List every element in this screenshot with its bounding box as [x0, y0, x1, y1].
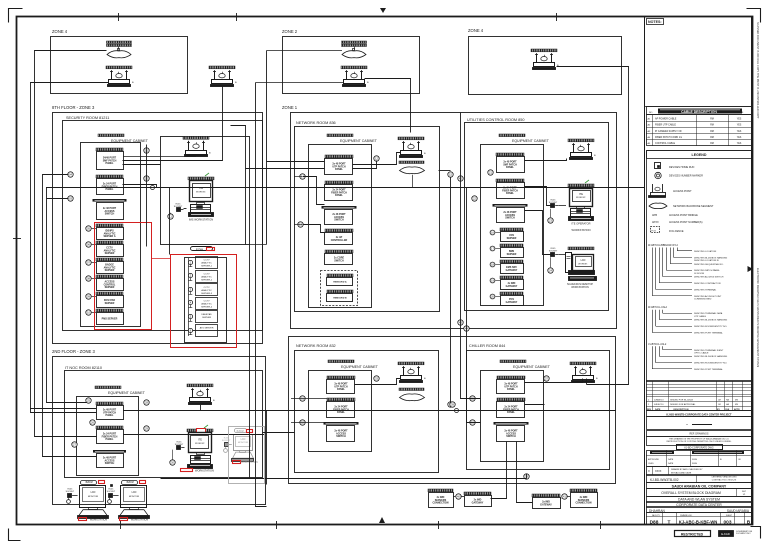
svg-text:XXXX: XXXX [655, 470, 662, 473]
svg-text:NETWORK BACKBONE SEGMENT: NETWORK BACKBONE SEGMENT [673, 205, 714, 208]
svg-text:8TH FLOOR - ZONE 3: 8TH FLOOR - ZONE 3 [52, 105, 95, 110]
svg-text:WORKSTATION: WORKSTATION [195, 469, 214, 473]
svg-text:ITE OPERATOR: ITE OPERATOR [571, 222, 590, 226]
svg-text:IT NOC ROOM 82110: IT NOC ROOM 82110 [65, 366, 102, 370]
svg-text:ISSUED FOR APPROVAL: ISSUED FOR APPROVAL [670, 403, 696, 406]
svg-text:CONNECTION: CONNECTION [432, 502, 448, 505]
svg-text:SERVER-3: SERVER-3 [201, 293, 213, 295]
svg-text:DATE: DATE [668, 462, 674, 465]
svg-text:DOCUMENT ONLY: DOCUMENT ONLY [736, 533, 752, 535]
svg-text:SERVER A: SERVER A [103, 235, 115, 238]
svg-text:DENOTES LOCATION: DENOTES LOCATION [694, 250, 717, 253]
svg-text:DRAWING NO.: DRAWING NO. [680, 514, 693, 517]
svg-text:LEGEND: LEGEND [692, 153, 707, 157]
svg-text:ATS SERVER: ATS SERVER [200, 327, 214, 330]
svg-text:UTILITIES CONTROL ROOM 850: UTILITIES CONTROL ROOM 850 [467, 118, 524, 122]
svg-text:SHEET: SHEET [726, 515, 733, 517]
svg-text:PANEL: PANEL [335, 194, 343, 197]
svg-text:SECURITY ROOM 81211: SECURITY ROOM 81211 [66, 116, 109, 120]
svg-text:CONNECTION: CONNECTION [575, 502, 591, 505]
svg-text:MONITOR: MONITOR [129, 496, 140, 498]
svg-text:SERVER: SERVER [507, 237, 517, 240]
svg-text:PANEL: PANEL [337, 388, 345, 391]
svg-text:PANEL: PANEL [106, 162, 114, 165]
svg-text:WORKST.: WORKST. [578, 263, 588, 265]
svg-text:WORKSTATION: WORKSTATION [131, 519, 149, 522]
svg-text:CHKD: CHKD [648, 463, 654, 465]
svg-text:RM: RM [710, 125, 714, 127]
svg-text:DENOTES TERMINAL IDENT: DENOTES TERMINAL IDENT [694, 349, 724, 352]
svg-text:ANALYTIC: ANALYTIC [201, 275, 212, 278]
svg-text:CONTROLLER: CONTROLLER [331, 239, 348, 242]
svg-text:PANEL: PANEL [106, 188, 114, 191]
svg-text:DENOTES CONTRACTOR: DENOTES CONTRACTOR [694, 282, 721, 285]
svg-text:DATA PAD: DATA PAD [201, 313, 212, 316]
svg-text:PMS SERVER: PMS SERVER [102, 317, 118, 320]
svg-text:YES: YES [737, 118, 742, 120]
svg-text:PANEL: PANEL [507, 411, 515, 414]
svg-text:SIGN: SIGN [692, 459, 697, 461]
svg-text:MONITOR: MONITOR [88, 496, 99, 498]
svg-text:D88: D88 [650, 520, 659, 526]
svg-text:APB: APB [652, 214, 657, 217]
svg-text:ITE: ITE [579, 192, 583, 196]
svg-text:CONTRACT NO. XXXX-XX: CONTRACT NO. XXXX-XX [712, 478, 737, 481]
svg-text:FIBER UTP CABLE: FIBER UTP CABLE [655, 124, 676, 127]
svg-text:B2DIM: B2DIM [237, 431, 244, 433]
svg-text:ZONE 4: ZONE 4 [52, 29, 68, 34]
svg-text:REF. DRAWINGS: REF. DRAWINGS [690, 432, 709, 435]
svg-text:LCD: LCD [581, 259, 586, 262]
svg-text:KJ-BD-CORPORATE DWG: KJ-BD-CORPORATE DWG [684, 446, 713, 449]
svg-text:SWITCH: SWITCH [336, 435, 346, 438]
svg-text:SOCKET: SOCKET [222, 440, 231, 442]
svg-text:RM: RM [710, 131, 714, 133]
svg-text:IP CAMERA SUPPLY OF: IP CAMERA SUPPLY OF [655, 130, 682, 133]
svg-text:REMOVED B: REMOVED B [333, 297, 347, 299]
svg-text:WORKSTATION: WORKSTATION [90, 519, 108, 522]
svg-text:LCD: LCD [241, 438, 246, 441]
svg-text:DENOTES ROOM/IDENTITY NO.: DENOTES ROOM/IDENTITY NO. [694, 363, 727, 365]
svg-text:WORKST.: WORKST. [196, 191, 206, 193]
svg-text:CONTROL CABLE: CONTROL CABLE [655, 142, 676, 145]
svg-text:COMMISSIONED: COMMISSIONED [694, 299, 712, 301]
svg-text:ANALYTIC: ANALYTIC [201, 289, 212, 292]
svg-text:22MAY13: 22MAY13 [654, 399, 664, 402]
svg-text:IMS WORKSTATION: IMS WORKSTATION [189, 218, 213, 222]
svg-text:GATEWAY: GATEWAY [506, 285, 518, 288]
svg-text:YES: YES [737, 125, 742, 127]
svg-text:2ND FLOOR - ZONE 3: 2ND FLOOR - ZONE 3 [52, 349, 95, 354]
svg-text:EQUIPMENT CABINET: EQUIPMENT CABINET [340, 139, 378, 143]
svg-text:EQUIPMENT CABINET: EQUIPMENT CABINET [513, 365, 551, 369]
svg-text:003: 003 [723, 520, 731, 526]
svg-text:DATA AND WLAN SYSTEM: DATA AND WLAN SYSTEM [678, 498, 720, 502]
svg-text:REPRODUCTION OR COPYING PERMIT: REPRODUCTION OR COPYING PERMITTED ONLY U… [667, 441, 732, 443]
svg-text:SWITCH: SWITCH [506, 435, 516, 438]
svg-text:ZONE 2: ZONE 2 [282, 29, 298, 34]
svg-text:ITE: ITE [199, 186, 203, 190]
svg-text:DENOTES TERMINAL: DENOTES TERMINAL [694, 288, 717, 291]
svg-text:JK ROOM: JK ROOM [694, 273, 704, 275]
svg-text:ANALYTIC: ANALYTIC [201, 262, 212, 265]
svg-text:V-ABTCCL-CbLd: V-ABTCCL-CbLd [648, 343, 667, 346]
svg-text:SWITCH: SWITCH [505, 217, 515, 220]
svg-text:CCTV: CCTV [204, 287, 210, 289]
svg-text:RM: RM [710, 137, 714, 139]
svg-text:EQUIPMENT CABINET: EQUIPMENT CABINET [341, 365, 379, 369]
svg-text:SERVER: SERVER [202, 317, 211, 319]
svg-text:ACCESS POINT: ACCESS POINT [673, 190, 692, 193]
svg-text:SAUDI ARABIAN OIL COMPANY: SAUDI ARABIAN OIL COMPANY [672, 485, 727, 489]
svg-text:CERTIFIED VENDOR DWG: CERTIFIED VENDOR DWG [711, 477, 737, 479]
svg-text:LCD: LCD [132, 491, 137, 494]
svg-text:GATEWAY: GATEWAY [540, 503, 552, 506]
svg-text:ACCESS POINT NUMBER(S): ACCESS POINT NUMBER(S) [669, 221, 703, 224]
svg-text:ACCESS POINT BRIDGE: ACCESS POINT BRIDGE [669, 214, 698, 217]
svg-text:SOCKET: SOCKET [107, 491, 116, 493]
svg-text:APPROVED: APPROVED [648, 458, 660, 461]
svg-text:SWITCH: SWITCH [105, 213, 115, 216]
svg-text:DENOTES LOCATION ID: DENOTES LOCATION ID [694, 259, 719, 262]
svg-text:DEVICES HOME RUN: DEVICES HOME RUN [669, 166, 694, 169]
svg-text:SERVER: SERVER [105, 302, 115, 305]
svg-text:APXX: APXX [652, 221, 659, 224]
svg-text:SWITCH: SWITCH [105, 462, 115, 465]
svg-text:W-ABTCCL-CbLd: W-ABTCCL-CbLd [648, 306, 668, 309]
svg-text:B: B [747, 520, 751, 526]
svg-text:GATEWAY: GATEWAY [506, 301, 518, 304]
svg-text:DENOTES TERMINAL DATA: DENOTES TERMINAL DATA [694, 312, 723, 315]
svg-text:DEVICES NUMBER MARKER: DEVICES NUMBER MARKER [669, 175, 703, 178]
svg-text:B2DIM: B2DIM [196, 248, 203, 251]
svg-text:ISSUED FOR BI-10643: ISSUED FOR BI-10643 [670, 400, 694, 402]
svg-text:ZONE 1: ZONE 1 [282, 105, 298, 110]
svg-text:WORKSTATION: WORKSTATION [571, 286, 589, 289]
svg-text:E-KAD: E-KAD [721, 532, 730, 536]
svg-text:CHILLER ROOM 844: CHILLER ROOM 844 [469, 344, 505, 348]
svg-text:CCTV: CCTV [204, 273, 210, 275]
svg-text:NETWORK ROOM 832: NETWORK ROOM 832 [296, 344, 336, 348]
svg-text:NO: NO [649, 112, 653, 114]
svg-text:NETWORK ROOM 836: NETWORK ROOM 836 [296, 121, 336, 125]
svg-text:WORKSTATION: WORKSTATION [572, 228, 591, 232]
svg-text:PANEL: PANEL [335, 168, 343, 171]
svg-text:YES: YES [737, 131, 742, 133]
svg-text:CCTV: CCTV [204, 260, 210, 262]
svg-text:X: X [648, 469, 650, 473]
svg-text:DENOTES ACCESS SWITCH: DENOTES ACCESS SWITCH [694, 276, 724, 279]
svg-text:DENOTES BLDG/BOX HANGING: DENOTES BLDG/BOX HANGING [694, 256, 727, 259]
svg-text:SERVER-1: SERVER-1 [201, 266, 213, 268]
svg-text:FIBER PATCH CORD 1m: FIBER PATCH CORD 1m [655, 136, 682, 139]
svg-text:04DEC10: 04DEC10 [654, 404, 664, 406]
svg-text:SCANNED DOCUMENT IS OFFICIAL C: SCANNED DOCUMENT IS OFFICIAL COPY. THE P… [756, 22, 759, 119]
svg-text:SERVER-2: SERVER-2 [201, 279, 213, 281]
svg-text:FOG: FOG [652, 230, 657, 232]
svg-text:DENOTES BLDG/BOX HANGING: DENOTES BLDG/BOX HANGING [694, 355, 727, 358]
svg-text:YES: YES [737, 137, 742, 139]
svg-text:YES: YES [737, 143, 742, 145]
svg-text:GATEWAY: GATEWAY [506, 269, 518, 272]
svg-text:FACILITY: FACILITY [652, 514, 661, 517]
svg-text:INITIALS AND DATE: INITIALS AND DATE [671, 471, 692, 474]
svg-text:ZONE 4: ZONE 4 [468, 28, 484, 33]
svg-text:B2DIM: B2DIM [127, 482, 134, 484]
svg-text:SOCKET: SOCKET [549, 250, 558, 252]
svg-text:SWITCH: SWITCH [334, 259, 344, 262]
svg-text:DATE: DATE [668, 458, 674, 461]
svg-text:OPTIC CABLE: OPTIC CABLE [694, 352, 709, 355]
svg-text:SERVER: SERVER [105, 252, 115, 255]
svg-text:DENOTES PORT TERMINAL: DENOTES PORT TERMINAL [694, 331, 724, 334]
svg-text:MONITOR: MONITOR [238, 442, 249, 444]
svg-text:PANEL: PANEL [507, 388, 515, 391]
svg-text:PANEL: PANEL [106, 414, 114, 417]
svg-text:DENOTES ROOM/IDENTITY NO.: DENOTES ROOM/IDENTITY NO. [694, 326, 727, 328]
svg-text:JM: JM [718, 400, 721, 402]
svg-text:T: T [668, 520, 671, 526]
svg-text:THIS DRAWING IS THE PROPERTY O: THIS DRAWING IS THE PROPERTY OF SAUDI AR… [669, 437, 730, 440]
svg-text:W-ABTCCL/BBBLDWJ.PJ.d: W-ABTCCL/BBBLDWJ.PJ.d [648, 244, 679, 247]
svg-text:DENOTES PORT TERMINAL: DENOTES PORT TERMINAL [694, 368, 724, 371]
svg-text:DENOTES PATCH PANEL: DENOTES PATCH PANEL [694, 269, 721, 272]
svg-text:PANEL: PANEL [506, 192, 514, 195]
svg-text:SOCKET: SOCKET [66, 491, 75, 493]
svg-text:DENOTES SEQUENTIAL NO.: DENOTES SEQUENTIAL NO. [694, 263, 724, 266]
svg-text:KJ-BD-WW3TB-002: KJ-BD-WW3TB-002 [650, 478, 679, 482]
svg-text:SERVER-4: SERVER-4 [201, 307, 213, 309]
svg-text:EQUIPMENT CABINET: EQUIPMENT CABINET [108, 391, 146, 395]
svg-text:DRAWN BY AND CHECKED BY: DRAWN BY AND CHECKED BY [671, 468, 703, 471]
svg-text:UTP CABLE: UTP CABLE [694, 315, 707, 318]
svg-text:ITE: ITE [198, 438, 202, 442]
svg-text:OVERALL SYSTEM BLOCK DIAGRAM: OVERALL SYSTEM BLOCK DIAGRAM [661, 491, 721, 495]
svg-text:EQUIPMENT CABINET: EQUIPMENT CABINET [512, 139, 550, 143]
svg-text:FOG FENCE: FOG FENCE [669, 230, 684, 233]
svg-text:REMARK: REMARK [734, 111, 744, 114]
svg-text:REMOVED A: REMOVED A [333, 280, 347, 283]
svg-text:LCD: LCD [91, 491, 96, 494]
svg-text:PANEL: PANEL [337, 411, 345, 414]
svg-text:PANEL: PANEL [506, 166, 514, 169]
svg-text:SERVER: SERVER [105, 286, 115, 289]
svg-text:DENOTES ACCESS POINT: DENOTES ACCESS POINT [694, 295, 722, 298]
svg-text:DESCRIPTION: DESCRIPTION [660, 112, 675, 114]
svg-text:WORKST.: WORKST. [195, 443, 205, 445]
svg-text:KJ-ABC-B-KBF-WN: KJ-ABC-B-KBF-WN [679, 519, 718, 524]
svg-text:GATEWAY: GATEWAY [472, 501, 484, 504]
svg-text:DENOTES BLDG/BOX HANGING: DENOTES BLDG/BOX HANGING [694, 319, 727, 322]
svg-text:B2DIM: B2DIM [86, 482, 93, 484]
svg-text:SERVER: SERVER [507, 253, 517, 256]
svg-text:NOTES:: NOTES: [648, 20, 662, 24]
svg-text:ELECTRONIC DRAWING FILE IS MAI: ELECTRONIC DRAWING FILE IS MAINTAINED IN… [756, 268, 759, 367]
svg-text:SIGN: SIGN [692, 463, 697, 465]
svg-text:PANEL: PANEL [106, 438, 114, 441]
svg-text:RM: RM [710, 143, 714, 145]
svg-text:RESTRICTED: RESTRICTED [681, 533, 704, 537]
svg-text:ANALYTIC: ANALYTIC [201, 303, 212, 306]
svg-text:AP POWER CABLE: AP POWER CABLE [655, 117, 677, 120]
svg-text:RM: RM [710, 118, 714, 120]
svg-text:SERVER: SERVER [105, 269, 115, 272]
svg-text:CCTV: CCTV [204, 301, 210, 303]
svg-text:WORKST.: WORKST. [576, 197, 586, 199]
svg-text:ROUTING: ROUTING [706, 112, 716, 114]
svg-text:KJ-BD-WW3TB-CORPORATE DATA CEN: KJ-BD-WW3TB-CORPORATE DATA CENTER PROJEC… [666, 413, 732, 416]
svg-text:SWITCH: SWITCH [334, 219, 344, 222]
svg-text:JM: JM [718, 404, 721, 406]
